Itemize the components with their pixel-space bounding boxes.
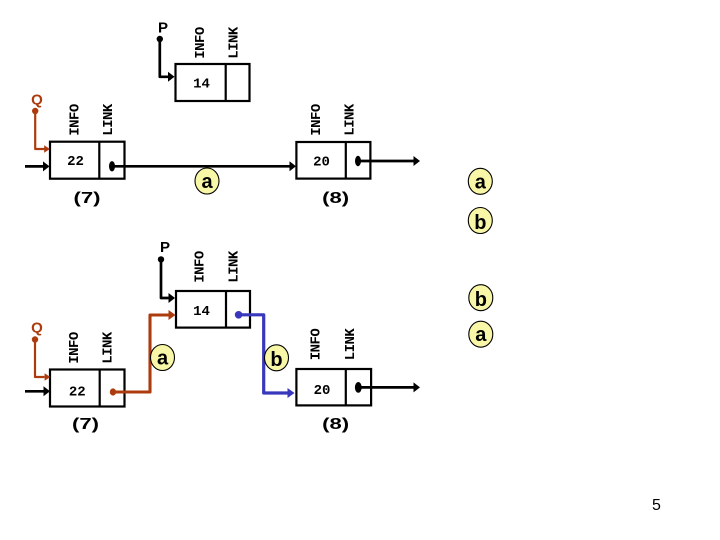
svg-text:INFO: INFO <box>309 104 325 136</box>
svg-text:(7): (7) <box>74 190 101 207</box>
svg-text:LINK: LINK <box>343 103 359 136</box>
svg-text:INFO: INFO <box>68 104 84 136</box>
svg-text:INFO: INFO <box>67 332 83 364</box>
svg-text:(8): (8) <box>322 190 349 207</box>
svg-text:Q: Q <box>31 92 43 109</box>
svg-text:LINK: LINK <box>227 250 243 283</box>
svg-text:5: 5 <box>652 497 661 514</box>
svg-text:(7): (7) <box>72 416 99 433</box>
svg-text:P: P <box>160 239 170 256</box>
svg-text:20: 20 <box>314 383 331 399</box>
svg-text:a: a <box>475 324 487 346</box>
svg-text:b: b <box>475 289 487 311</box>
svg-text:b: b <box>474 212 486 234</box>
svg-text:LINK: LINK <box>101 103 117 136</box>
svg-text:LINK: LINK <box>101 331 117 364</box>
svg-text:22: 22 <box>67 154 84 170</box>
svg-text:P: P <box>158 20 168 37</box>
svg-text:(8): (8) <box>322 416 349 433</box>
svg-text:LINK: LINK <box>227 26 243 59</box>
svg-text:a: a <box>157 348 169 370</box>
svg-text:b: b <box>270 349 282 371</box>
svg-text:LINK: LINK <box>343 328 359 361</box>
svg-text:22: 22 <box>69 384 86 400</box>
svg-text:a: a <box>475 171 487 193</box>
svg-text:20: 20 <box>313 154 330 170</box>
svg-text:INFO: INFO <box>309 329 325 361</box>
svg-text:14: 14 <box>193 304 210 320</box>
svg-text:a: a <box>201 171 213 193</box>
svg-text:INFO: INFO <box>193 27 209 59</box>
svg-text:14: 14 <box>193 77 210 93</box>
svg-text:Q: Q <box>31 320 43 337</box>
svg-text:INFO: INFO <box>193 251 209 283</box>
